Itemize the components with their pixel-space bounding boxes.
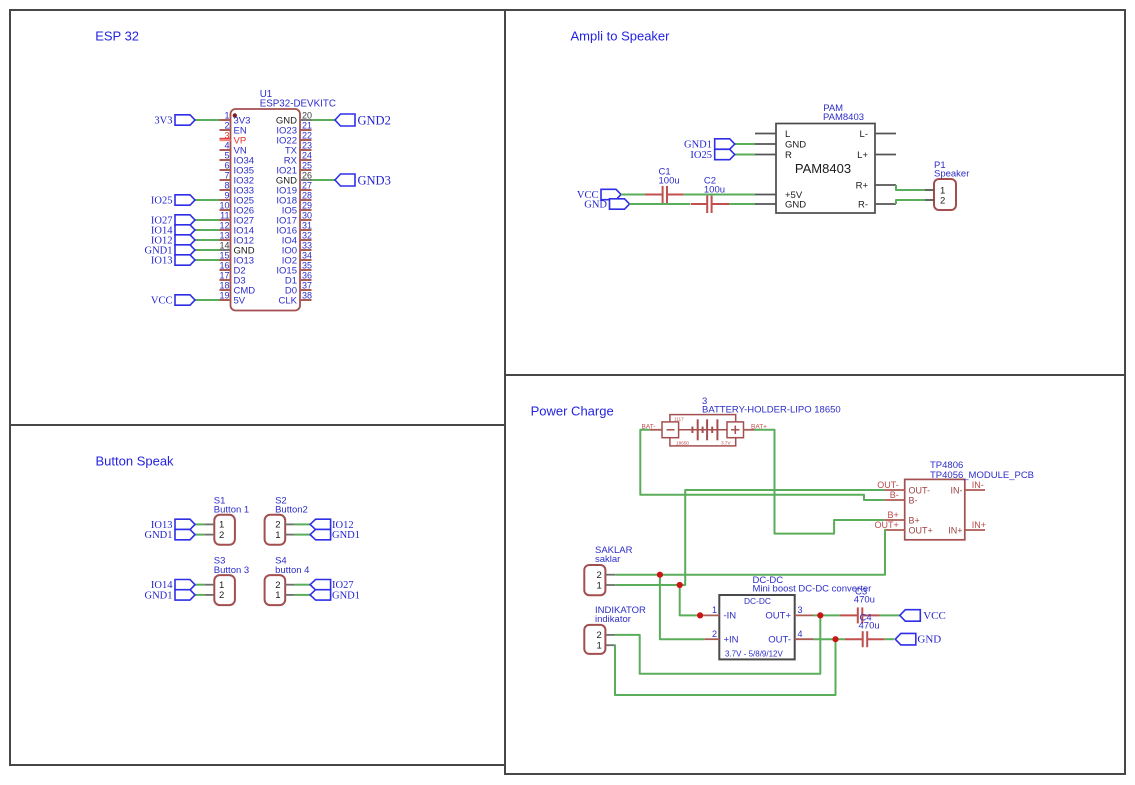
battery negative terminal box xyxy=(662,422,679,438)
svg-text:100u: 100u xyxy=(659,175,680,186)
svg-text:8: 8 xyxy=(224,181,229,191)
svg-text:5V: 5V xyxy=(234,295,246,306)
wire PAM R+ to speaker pin 1 xyxy=(896,185,925,190)
svg-text:3: 3 xyxy=(798,605,803,615)
TP4056 pin OUT- (left) xyxy=(884,489,905,491)
U1 pin 7 IO32 xyxy=(220,179,231,181)
DC-DC pin 2 +IN xyxy=(704,638,719,640)
junction at SAKLAR pin 2 xyxy=(657,572,663,578)
converter DC-DC Mini boost DC-DC converter body xyxy=(719,595,794,659)
TP4056 pin OUT+ (left) xyxy=(884,529,905,531)
svg-text:GND: GND xyxy=(584,200,607,211)
INDIKATOR pin 2 xyxy=(605,634,614,636)
wire DC-DC OUT+ to C3 xyxy=(814,614,840,616)
svg-text:24: 24 xyxy=(302,151,312,161)
net flag VCC (ampli) xyxy=(601,189,621,199)
svg-text:26: 26 xyxy=(302,171,312,181)
net flag VCC xyxy=(175,295,195,305)
svg-text:Ampli to Speaker: Ampli to Speaker xyxy=(571,28,671,43)
battery BAT- stub xyxy=(650,429,662,431)
wire S4 to net IO27 xyxy=(285,584,294,586)
svg-text:IO25: IO25 xyxy=(690,150,712,161)
PAM pin +5V (left) xyxy=(755,194,776,196)
svg-text:19: 19 xyxy=(219,291,229,301)
net flag IO12 xyxy=(175,235,195,245)
svg-text:DC-DC: DC-DC xyxy=(744,596,771,606)
switch SAKLAR saklar body xyxy=(584,565,605,595)
svg-text:B-: B- xyxy=(890,490,899,500)
svg-text:37: 37 xyxy=(302,281,312,291)
SAKLAR pin 2 xyxy=(605,574,615,576)
U1 pin 23 TX xyxy=(300,149,312,151)
svg-text:22: 22 xyxy=(302,131,312,141)
PAM pin R (left) xyxy=(755,154,776,156)
U1 pin-1 marker dot xyxy=(233,113,237,117)
svg-text:32: 32 xyxy=(302,231,312,241)
junction on -IN wire xyxy=(697,612,703,618)
svg-text:1: 1 xyxy=(597,641,602,652)
battery internal lead xyxy=(679,429,727,431)
svg-text:GND: GND xyxy=(917,634,941,646)
PAM pin L- (right) xyxy=(875,133,896,135)
svg-text:ESP 32: ESP 32 xyxy=(95,28,139,43)
svg-text:IN-: IN- xyxy=(951,485,963,495)
svg-text:VCC: VCC xyxy=(923,610,946,622)
svg-text:OUT+: OUT+ xyxy=(875,520,899,530)
svg-text:GND: GND xyxy=(785,199,806,210)
connector P1 Speaker body xyxy=(934,179,956,210)
svg-text:5: 5 xyxy=(224,151,229,161)
svg-text:saklar: saklar xyxy=(595,554,620,565)
U1 pin 28 IO18 xyxy=(300,199,312,201)
svg-text:Button 1: Button 1 xyxy=(214,505,249,516)
svg-text:100u: 100u xyxy=(704,184,725,195)
svg-text:14: 14 xyxy=(219,241,229,251)
wire U1 pin 20 to net GND2 xyxy=(312,119,336,121)
battery positive terminal box xyxy=(727,422,744,438)
U1 pin 36 D1 xyxy=(300,279,312,281)
net flag GND1 at PAM GND xyxy=(735,143,755,145)
U1 pin 32 IO4 xyxy=(300,239,312,241)
battery cell plates xyxy=(697,419,699,440)
U1 pin 19 5V xyxy=(220,299,231,301)
net flag IO27 xyxy=(310,580,331,590)
svg-text:button 4: button 4 xyxy=(275,565,309,576)
capacitor C4 470u xyxy=(845,638,863,640)
net flag GND1 xyxy=(175,590,195,600)
svg-text:13: 13 xyxy=(219,231,229,241)
wire TP4056 OUT- to SAKLAR pin 1 xyxy=(615,490,884,585)
amplifier PAM PAM8403 body xyxy=(776,124,875,214)
PAM pin R+ (right) xyxy=(875,184,896,186)
net flag IO14 xyxy=(175,580,195,590)
svg-text:3: 3 xyxy=(224,131,229,141)
svg-text:CLK: CLK xyxy=(279,295,298,306)
svg-text:21: 21 xyxy=(302,121,312,131)
wire net IO14 to S3 xyxy=(204,584,214,586)
svg-text:IO25: IO25 xyxy=(151,196,173,207)
wire DC-DC OUT- to C4 xyxy=(814,638,845,640)
P1 pin 1 xyxy=(925,189,934,191)
wire TP4056 OUT+ to SAKLAR pin 2 xyxy=(615,530,885,575)
svg-text:470u: 470u xyxy=(859,621,880,632)
svg-text:11: 11 xyxy=(220,211,229,221)
svg-text:10: 10 xyxy=(219,201,229,211)
svg-text:30: 30 xyxy=(302,211,312,221)
svg-text:PAM8403: PAM8403 xyxy=(823,112,864,123)
capacitor C3 470u xyxy=(840,614,858,616)
U1 pin 3 VP xyxy=(220,139,231,141)
svg-text:B+: B+ xyxy=(909,515,920,525)
net flag IO25 xyxy=(175,195,195,205)
svg-text:18: 18 xyxy=(219,281,229,291)
U1 pin 9 IO25 xyxy=(220,199,231,201)
svg-text:35: 35 xyxy=(302,261,312,271)
svg-text:27: 27 xyxy=(302,181,312,191)
svg-text:33: 33 xyxy=(302,241,312,251)
svg-text:OUT+: OUT+ xyxy=(909,525,933,535)
U1 pin 31 IO16 xyxy=(300,229,312,231)
svg-text:34: 34 xyxy=(302,251,312,261)
battery BAT+ stub xyxy=(744,429,755,431)
net flag GND1 xyxy=(175,529,195,539)
svg-text:9: 9 xyxy=(224,191,229,201)
U1 pin 34 IO2 xyxy=(300,259,312,261)
U1 pin 18 CMD xyxy=(220,289,231,291)
svg-text:2: 2 xyxy=(712,629,717,639)
svg-text:17: 17 xyxy=(219,271,229,281)
svg-text:GND1: GND1 xyxy=(145,590,173,601)
U1 pin 20 GND xyxy=(300,119,312,121)
net flag IO13 xyxy=(175,519,195,529)
op-amp U1 ESP32-DEVKITC body xyxy=(231,109,301,311)
net flag IO25 at PAM R xyxy=(735,154,755,156)
svg-text:15: 15 xyxy=(219,251,229,261)
net flag IO14 xyxy=(175,225,195,235)
SAKLAR pin 1 xyxy=(605,584,615,586)
net flag GND (power) xyxy=(895,633,916,645)
svg-text:R+: R+ xyxy=(856,180,869,191)
svg-text:IN-: IN- xyxy=(972,480,984,490)
INDIKATOR pin 1 xyxy=(605,644,614,646)
svg-text:IO13: IO13 xyxy=(151,256,173,267)
svg-text:4: 4 xyxy=(224,141,229,151)
wire C2 to PAM GND xyxy=(729,203,755,205)
svg-text:20: 20 xyxy=(302,111,312,121)
junction DC-DC OUT- node xyxy=(832,636,838,642)
U1 pin 12 IO14 xyxy=(220,229,231,231)
U1 pin 10 IO26 xyxy=(220,209,231,211)
net flag 3V3 xyxy=(175,115,195,125)
U1 pin 38 CLK xyxy=(300,299,312,301)
svg-text:12: 12 xyxy=(219,221,229,231)
svg-text:3.7V - 5/8/9/12V: 3.7V - 5/8/9/12V xyxy=(725,650,783,659)
svg-text:2: 2 xyxy=(224,121,229,131)
wire net 3V3 to U1 pin 1 xyxy=(195,119,220,121)
U1 pin 14 GND xyxy=(220,249,231,251)
svg-text:L-: L- xyxy=(860,129,868,140)
svg-text:Speaker: Speaker xyxy=(934,169,969,180)
svg-text:2: 2 xyxy=(940,195,945,206)
svg-text:OUT-: OUT- xyxy=(877,480,899,490)
junction at SAKLAR pin 1 xyxy=(677,582,683,588)
U1 pin 37 D0 xyxy=(300,289,312,291)
frame: ESP 32 sheet region xyxy=(10,10,505,425)
net flag GND1 xyxy=(310,590,331,600)
svg-text:-IN: -IN xyxy=(724,611,737,622)
U1 pin 30 IO17 xyxy=(300,219,312,221)
svg-text:GND1: GND1 xyxy=(145,530,173,541)
U1 pin 16 D2 xyxy=(220,269,231,271)
svg-text:GND1: GND1 xyxy=(684,140,712,151)
svg-text:23: 23 xyxy=(302,141,312,151)
PAM pin GND (left) xyxy=(755,203,776,205)
svg-text:OUT+: OUT+ xyxy=(765,611,791,622)
wire net GND1 to S1 xyxy=(204,534,214,536)
svg-text:36: 36 xyxy=(302,271,312,281)
svg-text:ESP32-DEVKITC: ESP32-DEVKITC xyxy=(260,98,336,109)
DC-DC pin 4 OUT- xyxy=(795,638,814,640)
frame: Power Charge sheet region xyxy=(505,375,1125,774)
wire S2 to net IO12 xyxy=(285,523,294,525)
svg-text:1: 1 xyxy=(712,605,717,615)
svg-text:2: 2 xyxy=(219,590,224,601)
TP4056 pin IN+ (right) xyxy=(965,529,985,531)
wire net IO27 to U1 pin 11 xyxy=(195,219,220,221)
switch S1 Button 1 body xyxy=(214,515,235,545)
U1 pin 25 IO21 xyxy=(300,169,312,171)
PAM pin GND (left) xyxy=(755,143,776,145)
connector INDIKATOR indikator body xyxy=(584,625,605,654)
U1 pin 6 IO35 xyxy=(220,169,231,171)
wire net GND1 to U1 pin 14 xyxy=(195,249,220,251)
wire PAM R- to speaker pin 2 xyxy=(896,200,925,204)
wire C3 to VCC flag xyxy=(880,614,900,616)
U1 pin 5 IO34 xyxy=(220,159,231,161)
svg-text:25: 25 xyxy=(302,161,312,171)
svg-text:L+: L+ xyxy=(857,150,868,161)
svg-text:28: 28 xyxy=(302,191,312,201)
svg-text:Mini boost DC-DC converter: Mini boost DC-DC converter xyxy=(753,584,872,595)
switch S3 Button 3 body xyxy=(214,575,235,605)
U1 pin 1 3V3 xyxy=(220,119,231,121)
svg-text:31: 31 xyxy=(302,221,312,231)
svg-text:GND3: GND3 xyxy=(358,173,391,187)
wire C4 to GND flag xyxy=(884,638,894,640)
svg-text:38: 38 xyxy=(302,291,312,301)
wire BAT+ to TP4056 B+ xyxy=(754,430,884,534)
svg-text:B-: B- xyxy=(909,495,918,505)
svg-text:1: 1 xyxy=(224,111,229,121)
svg-text:IN+: IN+ xyxy=(972,520,986,530)
net flag IO27 xyxy=(175,215,195,225)
svg-text:B+: B+ xyxy=(888,510,899,520)
svg-text:470u: 470u xyxy=(854,595,875,606)
net flag IO12 xyxy=(310,519,331,529)
wire net IO25 to U1 pin 9 xyxy=(195,199,220,201)
svg-text:1: 1 xyxy=(275,530,280,541)
net flag IO13 xyxy=(175,255,195,265)
net flag GND1 xyxy=(175,245,195,255)
wire net IO13 to S1 xyxy=(204,523,214,525)
svg-text:Button2: Button2 xyxy=(275,505,308,516)
wire U1 pin 26 to net GND3 xyxy=(312,179,336,181)
TP4056 pin B+ (left) xyxy=(884,519,905,521)
svg-text:1: 1 xyxy=(275,590,280,601)
svg-text:3.7V: 3.7V xyxy=(721,440,732,445)
svg-text:VCC: VCC xyxy=(151,296,173,307)
wire SAKLAR pin 1 branch to DC-DC -IN xyxy=(680,585,703,615)
net flag VCC (power) xyxy=(900,610,921,622)
U1 pin 21 IO23 xyxy=(300,129,312,131)
svg-text:Power Charge: Power Charge xyxy=(531,403,614,418)
wire S2 to net GND1 xyxy=(285,534,294,536)
svg-text:29: 29 xyxy=(302,201,312,211)
svg-text:16: 16 xyxy=(219,261,229,271)
svg-text:Button Speak: Button Speak xyxy=(96,453,175,468)
wire S4 to net GND1 xyxy=(285,594,294,596)
capacitor C2 100u xyxy=(691,203,708,205)
U1 pin 24 RX xyxy=(300,159,312,161)
wire INDIKATOR pin 1 to DC-DC OUT- node xyxy=(615,639,836,695)
U1 pin 8 IO33 xyxy=(220,189,231,191)
TP4056 pin IN- (right) xyxy=(965,489,985,491)
frame: Button Speak sheet region xyxy=(10,425,505,765)
svg-text:1: 1 xyxy=(597,580,602,591)
svg-text:7: 7 xyxy=(224,171,229,181)
P1 pin 2 xyxy=(925,199,934,201)
U1 pin 35 IO15 xyxy=(300,269,312,271)
svg-text:OUT-: OUT- xyxy=(909,485,931,495)
svg-text:4: 4 xyxy=(798,629,803,639)
U1 pin 15 IO13 xyxy=(220,259,231,261)
svg-text:18650: 18650 xyxy=(676,440,689,445)
wire net IO13 to U1 pin 15 xyxy=(195,259,220,261)
svg-text:GND1: GND1 xyxy=(332,530,360,541)
wire BAT- to TP4056 B- xyxy=(640,430,884,500)
svg-text:+IN: +IN xyxy=(724,635,739,646)
switch S2 Button2 body xyxy=(265,515,286,545)
svg-text:IN+: IN+ xyxy=(948,525,962,535)
net flag GND3 xyxy=(335,174,355,186)
U1 pin 33 IO0 xyxy=(300,249,312,251)
capacitor C1 100u xyxy=(645,194,663,196)
svg-text:L: L xyxy=(785,129,790,140)
wire GND to C2 xyxy=(630,203,691,205)
wire net VCC to U1 pin 19 xyxy=(195,299,220,301)
U1 pin 17 D3 xyxy=(220,279,231,281)
wire net IO14 to U1 pin 12 xyxy=(195,229,220,231)
U1 pin 13 IO12 xyxy=(220,239,231,241)
svg-text:OUT-: OUT- xyxy=(768,635,791,646)
wire INDIKATOR pin 2 to DC-DC OUT+ node xyxy=(615,615,821,673)
svg-text:GND: GND xyxy=(785,139,806,150)
DC-DC pin 3 OUT+ xyxy=(795,614,814,616)
wire net GND1 to S3 xyxy=(204,594,214,596)
svg-text:6: 6 xyxy=(224,161,229,171)
PAM pin L+ (right) xyxy=(875,154,896,156)
U1 pin 27 IO19 xyxy=(300,189,312,191)
net flag GND (ampli) xyxy=(610,199,630,209)
svg-text:R: R xyxy=(785,150,792,161)
junction DC-DC OUT+ node xyxy=(817,612,823,618)
svg-text:Button 3: Button 3 xyxy=(214,565,249,576)
charger TP4806 TP4056_MODULE_PCB body xyxy=(905,479,965,539)
svg-text:2: 2 xyxy=(219,530,224,541)
U1 pin 29 IO5 xyxy=(300,209,312,211)
svg-text:3V3: 3V3 xyxy=(154,116,172,127)
DC-DC pin 1 -IN xyxy=(703,614,719,616)
U1 pin 2 EN xyxy=(220,129,231,131)
frame: Ampli to Speaker sheet region xyxy=(505,10,1125,375)
PAM pin R- (right) xyxy=(875,203,896,205)
svg-text:GND1: GND1 xyxy=(332,590,360,601)
TP4056 pin B- (left) xyxy=(884,499,905,501)
U1 pin 26 GND xyxy=(300,179,312,181)
wire net IO12 to U1 pin 13 xyxy=(195,239,220,241)
U1 pin 22 IO22 xyxy=(300,139,312,141)
U1 pin 11 IO27 xyxy=(220,219,231,221)
svg-text:BATTERY-HOLDER-LIPO 18650: BATTERY-HOLDER-LIPO 18650 xyxy=(702,405,841,416)
svg-text:PAM8403: PAM8403 xyxy=(795,161,851,176)
PAM pin L (left) xyxy=(755,133,776,135)
net flag GND1 xyxy=(310,529,331,539)
switch S4 button 4 body xyxy=(265,575,286,605)
wire SAKLAR pin 2 branch to DC-DC +IN xyxy=(660,575,704,640)
svg-text:R-: R- xyxy=(858,199,868,210)
net flag GND2 xyxy=(335,114,355,126)
svg-text:GND2: GND2 xyxy=(358,113,391,127)
svg-text:1117: 1117 xyxy=(674,417,684,422)
wire VCC to C1 xyxy=(621,194,645,196)
wire C1 to PAM +5V xyxy=(684,194,755,196)
U1 pin 4 VN xyxy=(220,149,231,151)
svg-text:indikator: indikator xyxy=(595,614,631,625)
battery 3 BATTERY-HOLDER-LIPO 18650 body xyxy=(670,415,736,446)
